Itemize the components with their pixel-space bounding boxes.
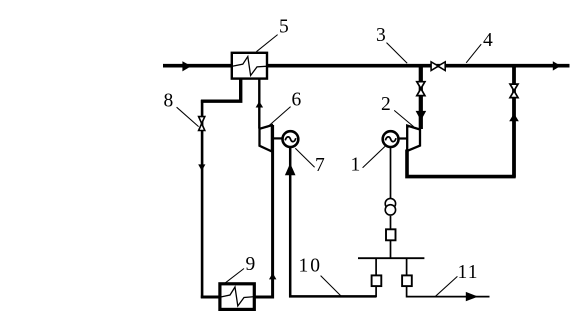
svg-text:11: 11 xyxy=(458,262,479,283)
wire: breaker CB1 to house line xyxy=(375,286,377,297)
breaker CB0 xyxy=(386,229,396,240)
leader for label 6 xyxy=(267,107,291,128)
turbine T6 xyxy=(260,125,272,151)
svg-text:6: 6 xyxy=(292,90,302,111)
transformer TR xyxy=(385,198,395,208)
wire: heat exchanger 9 right outlet xyxy=(256,125,273,297)
generator G7 xyxy=(283,131,299,147)
flow arrow up toward turbine 6 xyxy=(269,273,276,280)
flow arrow down into turbine 2 xyxy=(416,111,427,121)
wire: heat exchanger 9 left inlet xyxy=(201,296,219,299)
valve on riser xyxy=(510,84,518,98)
wire: main steam header xyxy=(163,64,570,68)
svg-text:3: 3 xyxy=(376,25,386,46)
valve on turbine 2 branch xyxy=(417,82,425,96)
leader for label 10 xyxy=(321,276,341,296)
wire: left feeder from busbar xyxy=(375,258,377,275)
wire: outgoing feeder line xyxy=(407,286,490,297)
svg-text:9: 9 xyxy=(246,254,256,275)
svg-text:10: 10 xyxy=(299,256,323,277)
zigzag inside E9 xyxy=(218,287,255,306)
leader for label 3 xyxy=(387,43,408,64)
flow arrow on main header left xyxy=(182,61,191,71)
leader for label 11 xyxy=(436,276,458,296)
wire: riser back to main header xyxy=(512,66,516,178)
svg-text:4: 4 xyxy=(483,30,493,51)
valve V34 on main header xyxy=(431,62,445,71)
valve V8 xyxy=(199,117,205,131)
svg-text:1: 1 xyxy=(351,155,361,176)
flow arrow on main header right end xyxy=(553,61,561,70)
leader for label 9 xyxy=(225,269,244,284)
breaker CB1 xyxy=(372,275,382,286)
leader for label 1 xyxy=(363,146,385,167)
leader for label 4 xyxy=(466,44,481,63)
heat exchanger E9 xyxy=(220,284,254,310)
shaft from generator 1 to turbine 2 xyxy=(399,137,409,139)
wire: right feeder from busbar xyxy=(406,258,408,275)
sine mark in G1 xyxy=(385,137,396,142)
wire: left downcomer to heat exchanger 9 xyxy=(201,100,204,298)
leader for label 8 xyxy=(177,107,199,126)
wire: transformer to breaker xyxy=(390,216,392,230)
svg-text:5: 5 xyxy=(279,17,289,38)
busbar xyxy=(358,257,424,259)
wire: generator 1 to transformer xyxy=(390,148,392,199)
flow arrow down on left downcomer xyxy=(198,164,205,171)
wire: riser from turbine 6 to heat exchanger 5 xyxy=(258,79,260,129)
sine mark in G7 xyxy=(285,137,296,142)
svg-text:2: 2 xyxy=(381,94,391,115)
leader for label 7 xyxy=(295,148,314,167)
wire: turbine 2 exhaust to riser (thick L) xyxy=(407,150,516,177)
heat exchanger E5 xyxy=(232,53,267,79)
zigzag inside E5 xyxy=(231,57,268,76)
turbine T2 xyxy=(407,126,420,151)
flow arrow up into heat exchanger 5 xyxy=(256,101,264,107)
shaft from turbine 6 to generator 7 xyxy=(273,137,283,139)
wire: drop from generator 7 to station bus xyxy=(290,148,376,297)
generator G1 xyxy=(383,131,399,147)
svg-text:8: 8 xyxy=(164,91,174,112)
wire: branch from header to turbine 2 (thick) xyxy=(419,66,423,129)
breaker CB2 xyxy=(402,275,412,286)
leader for label 2 xyxy=(394,110,413,126)
leader for label 5 xyxy=(256,35,277,52)
svg-text:7: 7 xyxy=(315,155,325,176)
flow arrow up on riser xyxy=(509,113,519,121)
flow arrow up below generator 7 xyxy=(285,163,296,175)
flow arrow on outgoing feeder xyxy=(466,292,478,301)
wire: breaker to busbar xyxy=(390,240,392,257)
wire: drop from heat exchanger 5 (thick) xyxy=(201,79,241,102)
